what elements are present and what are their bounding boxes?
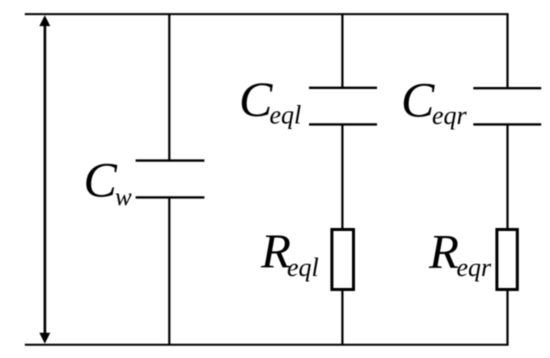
svg-text:C: C [84, 152, 118, 208]
svg-text:C: C [239, 71, 273, 127]
svg-text:eqr: eqr [432, 101, 468, 130]
svg-text:R: R [428, 224, 459, 279]
wire Reqr branch lower [506, 290, 508, 345]
wire Cw branch upper [168, 14, 170, 161]
capacitor Cw [136, 161, 205, 198]
label Reql [260, 224, 319, 283]
voltage measurement double arrow [39, 15, 50, 343]
wire Ceqr branch upper [506, 14, 508, 88]
wire Ceql-Reql middle [341, 124, 343, 229]
svg-text:eqr: eqr [457, 253, 493, 282]
label Ceql [239, 71, 301, 130]
capacitor Ceql [309, 88, 377, 125]
svg-text:w: w [115, 184, 132, 211]
resistor Reqr [497, 230, 517, 290]
wire Ceql branch upper [341, 14, 343, 88]
label Ceqr [401, 72, 468, 131]
resistor Reql [332, 230, 354, 290]
capacitor Ceqr [473, 88, 541, 124]
wire Reql branch lower [341, 290, 343, 345]
svg-text:eql: eql [270, 101, 302, 130]
wire Cw branch lower [168, 197, 170, 344]
wire Ceqr-Reqr middle [506, 124, 508, 229]
svg-text:C: C [401, 72, 435, 128]
wire bottom rail [25, 344, 509, 346]
label Reqr [428, 224, 492, 282]
svg-text:eql: eql [287, 253, 319, 282]
label Cw [84, 152, 133, 212]
wire top rail [25, 13, 509, 15]
